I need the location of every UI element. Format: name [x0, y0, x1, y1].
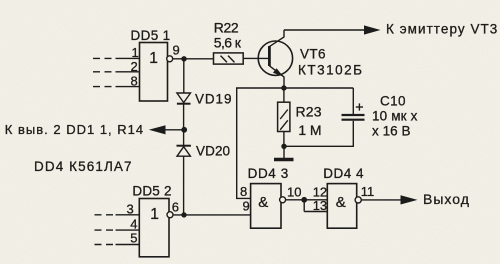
wire output to arrow — [361, 199, 401, 201]
wire pin 8 dashed — [93, 86, 113, 88]
node R14 junction — [181, 127, 187, 133]
wire pin 1 dashed — [93, 57, 113, 59]
output bubble pin 11 — [355, 197, 361, 203]
svg-text:DD4 3: DD4 3 — [248, 166, 289, 181]
svg-text:6: 6 — [172, 199, 179, 214]
svg-text:DD5 2: DD5 2 — [132, 184, 171, 199]
svg-text:11: 11 — [361, 184, 375, 199]
wire pin 8 — [116, 86, 140, 88]
IC DD5.1 box — [140, 43, 168, 102]
svg-text:DD4 К561ЛА7: DD4 К561ЛА7 — [34, 159, 133, 174]
VT6 emitter arrow — [273, 68, 283, 76]
svg-text:C10: C10 — [380, 94, 406, 109]
svg-text:1: 1 — [149, 50, 158, 67]
gate DD4.4 box — [327, 184, 356, 229]
svg-text:1: 1 — [150, 206, 159, 223]
node ground junction — [281, 144, 286, 149]
IC DD5.2 box — [139, 199, 169, 257]
wire VD20 down to node B — [183, 156, 185, 215]
svg-text:R23: R23 — [296, 104, 322, 120]
node A junction — [181, 56, 186, 61]
ground bar — [274, 158, 294, 162]
svg-text:1 М: 1 М — [298, 122, 321, 138]
wire emitter bus — [236, 87, 353, 89]
svg-text:Выход: Выход — [423, 191, 470, 207]
wire VD19 to R14 node — [183, 104, 185, 146]
capacitor C10 top plate — [342, 114, 365, 116]
svg-text:2: 2 — [131, 59, 138, 74]
diode VD19 — [177, 93, 191, 104]
resistor R23 — [278, 102, 290, 131]
svg-text:К выв. 2 DD1 1, R14: К выв. 2 DD1 1, R14 — [5, 122, 144, 137]
svg-text:К эмиттеру VT3: К эмиттеру VT3 — [386, 22, 498, 37]
capacitor C10 bottom plate — [342, 119, 365, 121]
R23 power slashes — [280, 110, 288, 120]
wire emitter junction to R23 — [283, 88, 285, 102]
svg-text:1: 1 — [132, 45, 139, 60]
wire right drop to C10 — [352, 88, 354, 114]
VT6 base bar — [268, 46, 271, 66]
wire pin 4 — [116, 229, 140, 231]
wire junction down — [303, 200, 305, 212]
wire top to arrow — [284, 29, 365, 31]
output bubble pin 10 — [280, 197, 286, 203]
wire left drop to pin 8 — [237, 88, 251, 198]
svg-text:8: 8 — [131, 74, 138, 89]
svg-text:9: 9 — [243, 199, 250, 214]
svg-text:8: 8 — [240, 184, 247, 199]
wire pin 1 — [116, 57, 140, 59]
svg-text:х 16 В: х 16 В — [372, 124, 411, 139]
wire to left arrow — [165, 129, 184, 131]
node emitter junction — [281, 85, 286, 90]
node B junction — [181, 212, 186, 217]
svg-text:&: & — [336, 194, 346, 211]
VT6 collector — [269, 30, 284, 47]
VT6 emitter — [269, 66, 284, 88]
svg-text:5: 5 — [130, 230, 137, 245]
svg-text:&: & — [258, 194, 268, 211]
resistor R22 — [214, 53, 244, 64]
svg-text:3: 3 — [127, 201, 134, 216]
node pin12-13 junction — [301, 197, 307, 203]
svg-text:VT6: VT6 — [300, 47, 326, 62]
svg-text:13: 13 — [313, 198, 327, 213]
wire pin10 to pin12 — [286, 199, 328, 201]
svg-text:9: 9 — [173, 43, 180, 58]
wire bubble to DD4.3 pin 9 — [174, 214, 251, 216]
gate DD4.3 box — [251, 184, 281, 229]
arrow vyhod — [401, 195, 418, 204]
wire pin 2 — [116, 71, 140, 73]
wire node A down to VD19 — [183, 59, 185, 93]
svg-text:КТ3102Б: КТ3102Б — [298, 63, 364, 78]
diode VD20 — [177, 146, 191, 157]
wire R22 to base — [243, 57, 269, 59]
wire pin 3 — [116, 214, 140, 216]
wire pin 4 dashed — [95, 229, 114, 231]
svg-text:4: 4 — [130, 216, 137, 231]
output bubble pin 9 — [167, 56, 173, 62]
ground stem — [283, 146, 285, 158]
svg-text:VD19: VD19 — [195, 92, 232, 107]
svg-text:10: 10 — [287, 184, 301, 199]
arrow to R14 — [149, 125, 166, 134]
output bubble pin 6 — [167, 212, 173, 218]
arrow to emitter VT3 — [364, 25, 381, 34]
wire bubble to node A — [173, 58, 214, 60]
svg-text:5,6 к: 5,6 к — [214, 35, 242, 51]
wire pin 5 — [116, 244, 140, 246]
transistor VT6 circle — [258, 41, 292, 75]
wire C10 bottom — [284, 121, 353, 147]
svg-text:R22: R22 — [214, 20, 239, 36]
wire pin 3 dashed — [95, 214, 114, 216]
svg-text:DD5 1: DD5 1 — [131, 28, 171, 43]
svg-text:DD4 4: DD4 4 — [323, 166, 364, 181]
wire pin 2 dashed — [93, 71, 113, 73]
wire to pin 13 — [304, 211, 327, 213]
svg-text:10 мк х: 10 мк х — [372, 109, 418, 124]
wire R23 to ground node — [283, 132, 285, 147]
svg-text:VD20: VD20 — [196, 144, 230, 159]
R22 power slashes — [221, 56, 228, 63]
wire pin 5 dashed — [95, 244, 114, 246]
C10 plus sign — [356, 103, 363, 110]
